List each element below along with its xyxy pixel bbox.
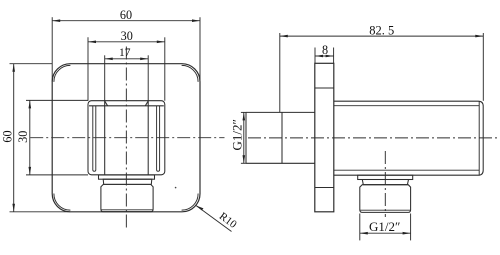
dimension 8 line xyxy=(315,55,334,57)
dimension 17 arrows xyxy=(105,58,149,61)
svg-text:17: 17 xyxy=(119,47,131,59)
side view horizontal centerline xyxy=(248,137,497,139)
dimension 60 left extension bottom xyxy=(10,211,71,213)
dimension 30 top arrows xyxy=(88,41,165,44)
dimension 60 top extension right xyxy=(199,17,201,82)
front view horizontal centerline xyxy=(30,137,224,139)
front view outlet plate1 xyxy=(99,175,155,179)
dimension 8 extension left xyxy=(314,48,316,64)
stray dot artifact xyxy=(175,187,177,189)
side view outlet vertical centerline xyxy=(384,151,386,217)
side view body end cap line xyxy=(478,102,480,175)
radius leader R10 arrow xyxy=(196,206,204,211)
front view inner corner arc top-right xyxy=(182,65,199,82)
side view thread end line xyxy=(281,112,283,163)
dimension G1/2 left arrows xyxy=(243,112,246,163)
front view right slot xyxy=(157,106,160,172)
dimension 30 left line xyxy=(29,100,31,174)
side view pipe bottom edge xyxy=(246,162,315,164)
dimension 17 extension left xyxy=(104,55,106,101)
front view boss chamfer line xyxy=(89,105,164,107)
dimension 8 arrows xyxy=(315,55,334,58)
dimension G1/2 bottom line xyxy=(360,232,411,234)
side view flange tangent line bottom xyxy=(315,187,334,189)
side view body tangent bottom xyxy=(334,169,479,171)
front view outlet nut xyxy=(101,184,153,211)
side view flange tangent line top xyxy=(315,87,334,89)
dimension 82.5 extension left xyxy=(279,33,281,112)
side view outlet nut xyxy=(360,185,411,213)
dimension 82.5 extension right xyxy=(482,33,484,101)
front view cylinder right edge 17 xyxy=(147,101,149,175)
dimension G1/2 left extension bottom xyxy=(241,162,246,164)
svg-text:8: 8 xyxy=(322,43,328,57)
dimension 30 left extension top xyxy=(26,99,88,101)
dimension 17 line xyxy=(105,58,149,60)
dimension 30 left extension bottom xyxy=(26,174,88,176)
front view cylinder chamfer left xyxy=(105,101,108,106)
side view outlet nut inner line xyxy=(360,209,410,211)
svg-text:60: 60 xyxy=(0,130,14,142)
dimension 60 left extension top xyxy=(10,63,53,65)
front view cylinder left edge 17 xyxy=(104,101,106,175)
side view outlet plate2 xyxy=(362,180,408,185)
side view outlet plate1 xyxy=(358,175,413,179)
dimension 30 top extension left xyxy=(87,37,89,100)
svg-text:30: 30 xyxy=(16,131,30,143)
front view inner corner arc top-left xyxy=(54,65,71,82)
front view outlet nut inner line xyxy=(101,209,153,211)
dimension G1/2 bottom extension right xyxy=(410,214,412,241)
dimension G1/2 bottom arrows xyxy=(360,232,411,235)
front view cylinder chamfer right xyxy=(145,101,148,106)
dimension G1/2 left line xyxy=(243,112,245,163)
dimension 60 left arrows xyxy=(12,64,15,212)
radius leader R10 xyxy=(196,206,232,232)
dimension 60 top extension left xyxy=(51,17,53,82)
dimension 82.5 line xyxy=(280,35,484,37)
front view left slot xyxy=(93,106,96,172)
side view body tangent top xyxy=(334,105,479,107)
dimension G1/2 bottom extension left xyxy=(359,214,361,241)
svg-text:82. 5: 82. 5 xyxy=(369,24,394,38)
dimension 60 left line xyxy=(13,64,15,212)
side view body outline xyxy=(334,101,483,175)
svg-text:30: 30 xyxy=(121,29,133,43)
svg-text:G1/2″: G1/2″ xyxy=(369,219,400,234)
svg-text:R10: R10 xyxy=(217,210,239,231)
front view inner corner arc bottom-left xyxy=(54,194,71,211)
front view inner corner arc bottom-right xyxy=(182,194,199,211)
front view outer square body R10 xyxy=(52,64,200,212)
dimension 30 left arrows xyxy=(29,100,32,174)
svg-text:60: 60 xyxy=(120,8,132,22)
front view vertical centerline xyxy=(125,47,127,229)
dimension 82.5 arrows xyxy=(280,35,484,38)
dimension 8 extension right xyxy=(333,48,335,64)
front view outlet plate2 xyxy=(103,179,152,184)
svg-text:G1/2″: G1/2″ xyxy=(230,119,245,150)
dimension 60 top arrows xyxy=(52,19,200,22)
front view boss outline 30x30 xyxy=(88,101,165,175)
dimension G1/2 left extension top xyxy=(241,111,246,113)
dimension 30 top extension right xyxy=(164,37,166,100)
dimension 17 extension right xyxy=(147,55,149,101)
dimension 30 top line xyxy=(88,41,165,43)
side view pipe left end xyxy=(245,112,247,163)
dimension 60 top line xyxy=(52,20,200,22)
side view pipe top edge xyxy=(246,111,315,113)
side view flange xyxy=(315,63,334,212)
